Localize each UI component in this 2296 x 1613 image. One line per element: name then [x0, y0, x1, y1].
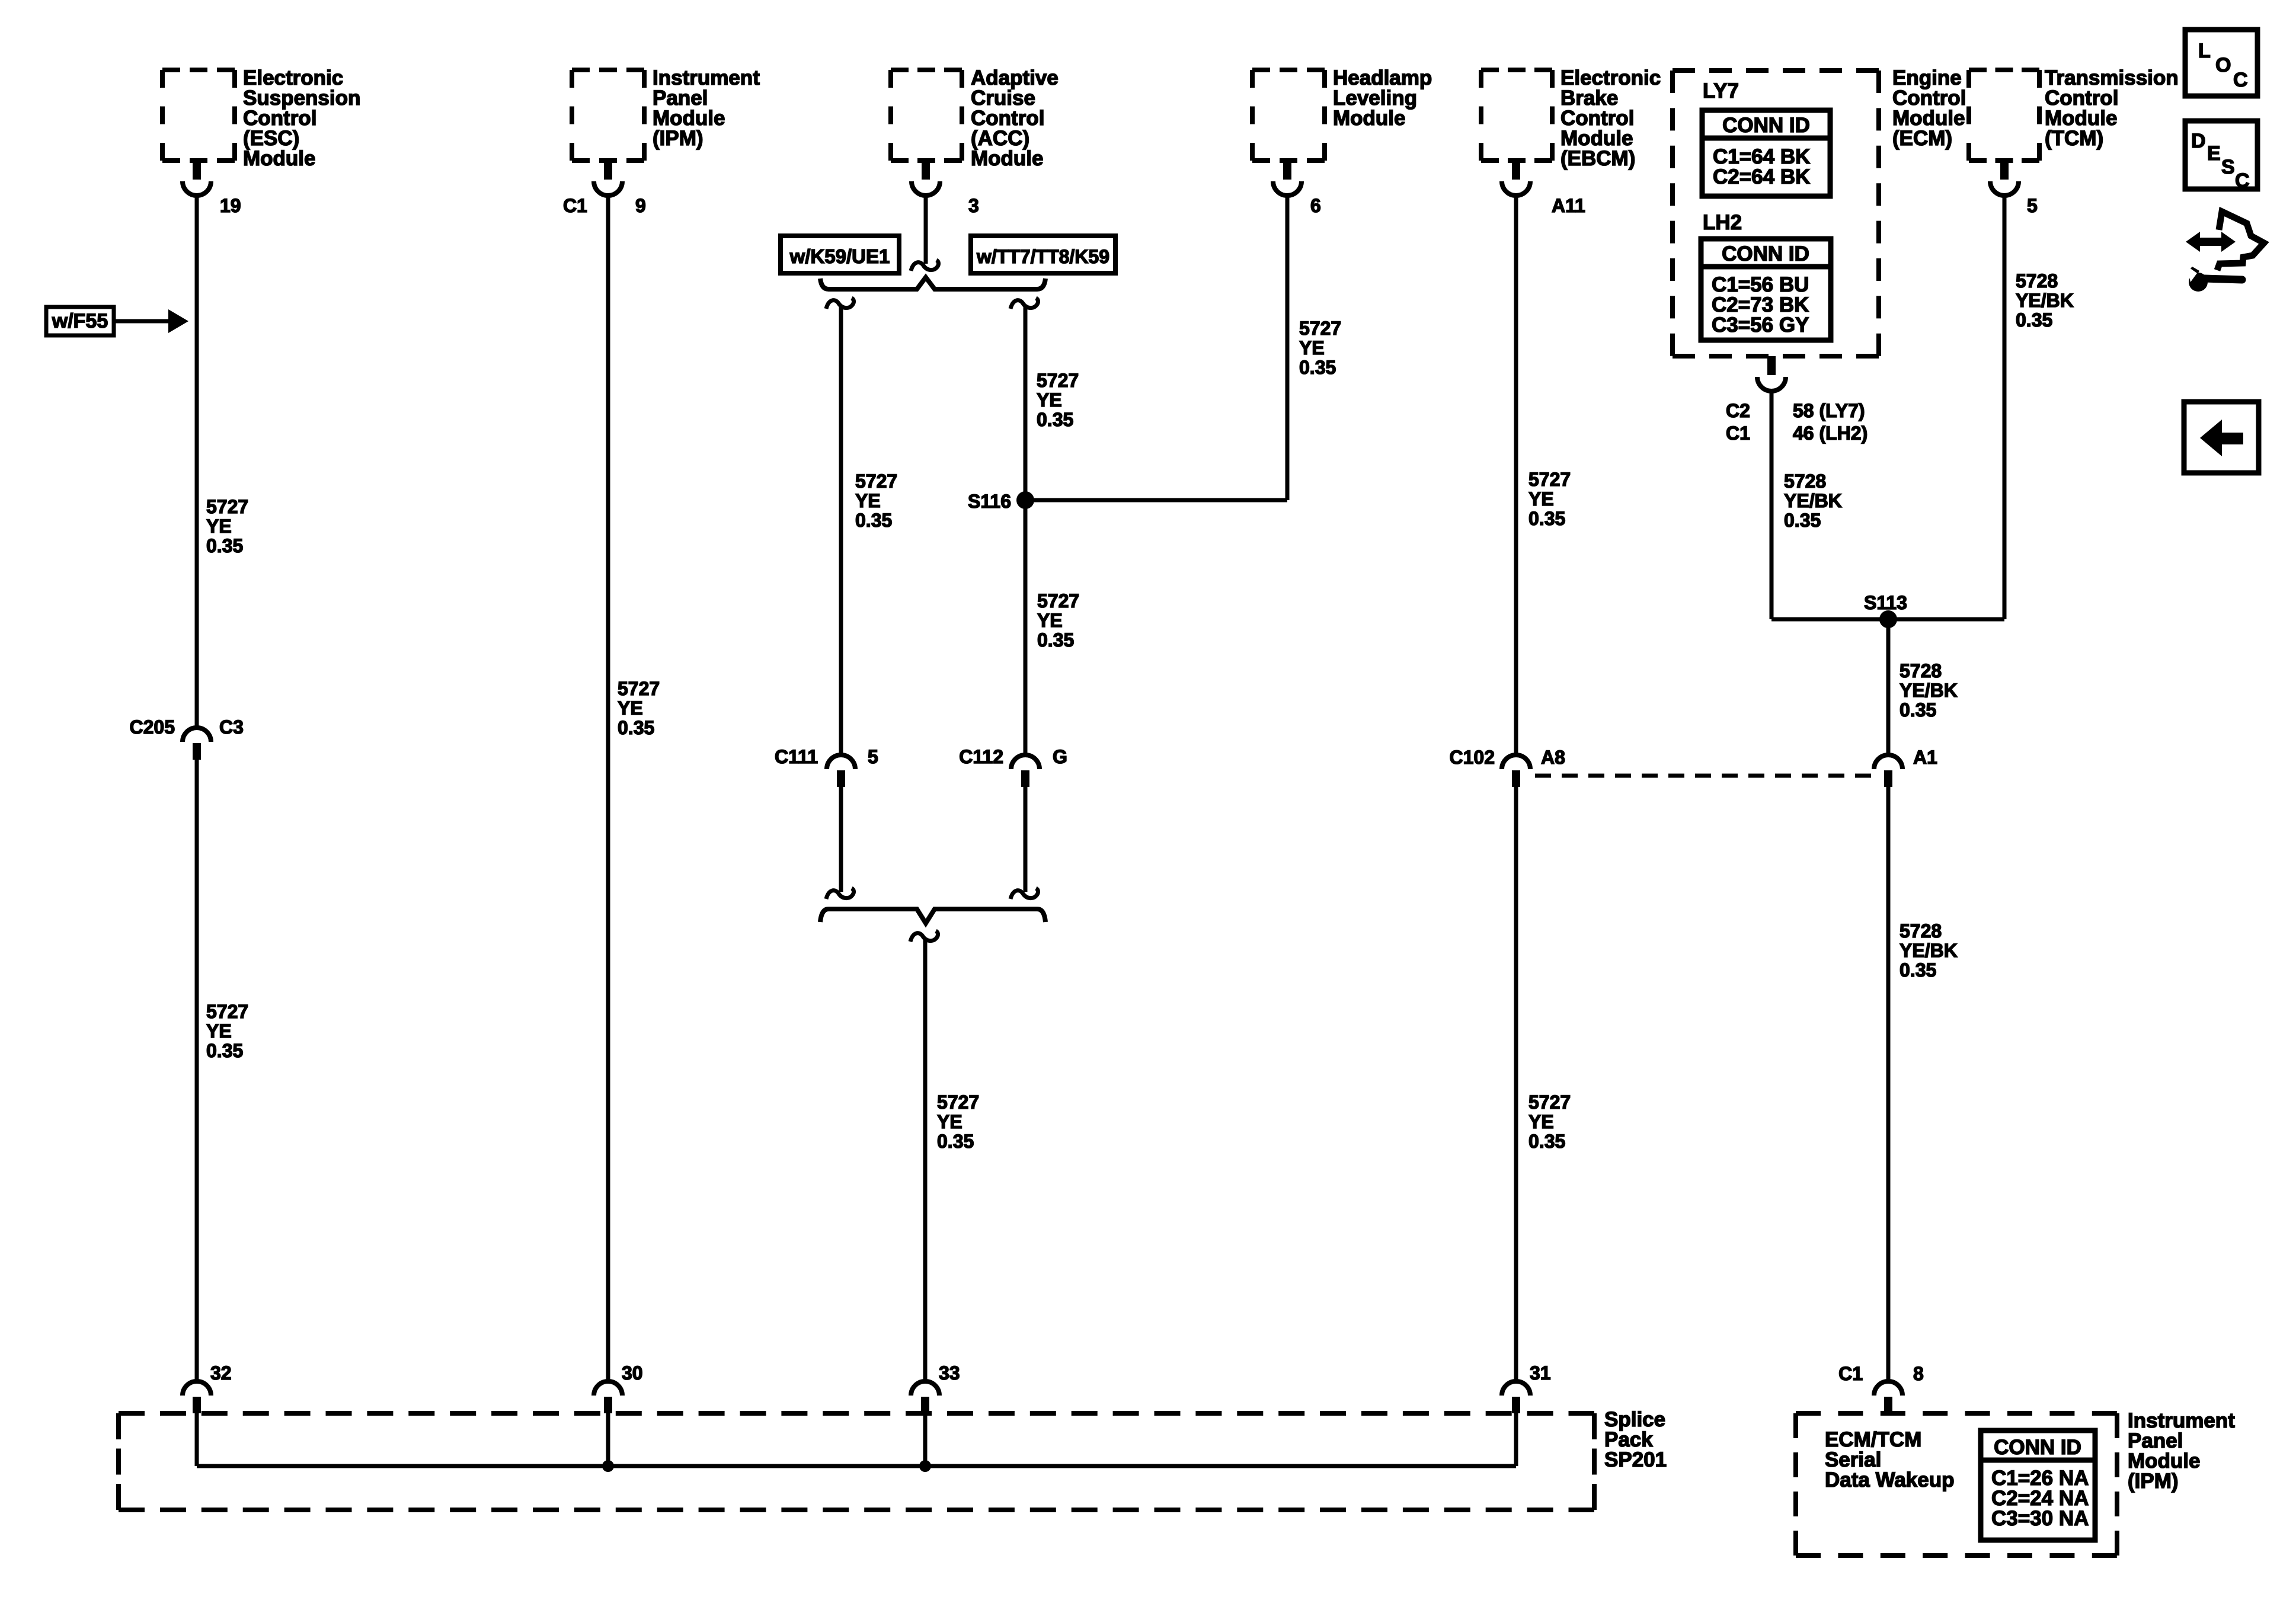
svg-text:C1: C1	[563, 195, 587, 216]
svg-text:C: C	[2235, 169, 2250, 192]
wire TCM pin 5 down to S113 level	[2003, 194, 2007, 619]
svg-text:G: G	[1053, 746, 1067, 767]
wire ECM pin down to S113 level	[1770, 390, 1774, 619]
connector C102	[1502, 755, 1530, 769]
splice pin 30 inner wire	[606, 1413, 610, 1466]
wire right branch down to C112	[1024, 306, 1028, 755]
back arrow icon box	[2184, 402, 2259, 473]
svg-text:C1: C1	[1726, 423, 1750, 444]
svg-text:5727: 5727	[937, 1092, 979, 1113]
svg-text:0.35: 0.35	[1037, 629, 1074, 651]
svg-text:5727: 5727	[1299, 318, 1341, 339]
svg-text:5728: 5728	[1784, 471, 1826, 492]
svg-text:C205: C205	[130, 716, 175, 738]
svg-text:0.35: 0.35	[206, 1040, 243, 1061]
svg-text:0.35: 0.35	[1900, 699, 1936, 721]
svg-text:5728: 5728	[2016, 270, 2058, 292]
svg-text:D: D	[2191, 130, 2206, 152]
svg-text:3: 3	[968, 195, 979, 216]
wire C205 down to splice 32	[195, 760, 199, 1382]
splice pin 32 inner wire	[195, 1413, 199, 1466]
svg-text:58 (LY7): 58 (LY7)	[1793, 400, 1865, 421]
wrench icon	[2204, 279, 2242, 280]
svg-text:YE: YE	[206, 516, 232, 537]
svg-text:8: 8	[1913, 1363, 1924, 1384]
connector A1	[1874, 755, 1902, 769]
svg-text:C102: C102	[1450, 747, 1495, 768]
svg-text:CONN ID: CONN ID	[1994, 1436, 2081, 1459]
svg-text:C3=56 GY: C3=56 GY	[1712, 313, 1809, 337]
LY7 CONN ID table	[1702, 110, 1830, 196]
svg-text:C1: C1	[1838, 1363, 1863, 1384]
svg-text:5: 5	[2027, 195, 2038, 216]
splice bus junction dot 33	[919, 1460, 931, 1472]
module ESC pin connector	[193, 161, 201, 180]
svg-text:YE/BK: YE/BK	[2016, 290, 2074, 311]
LOC icon box	[2185, 30, 2257, 96]
splice pin 30 connector	[594, 1381, 622, 1396]
svg-text:5727: 5727	[1528, 469, 1571, 490]
svg-text:C2: C2	[1726, 400, 1750, 421]
connector C205/C3	[183, 728, 211, 742]
svg-text:C3: C3	[219, 716, 244, 738]
svg-text:YE: YE	[855, 490, 881, 511]
svg-text:YE: YE	[1037, 610, 1063, 631]
variant box w/K59/UE1	[781, 236, 899, 273]
splice pin 32 connector	[183, 1381, 211, 1396]
svg-text:O: O	[2215, 54, 2231, 76]
w/F55 box	[46, 307, 114, 335]
wire left branch down to C111	[839, 306, 843, 755]
svg-text:32: 32	[210, 1362, 232, 1384]
svg-text:0.35: 0.35	[1900, 959, 1936, 981]
module IPM box	[572, 68, 644, 72]
svg-text:Data Wakeup: Data Wakeup	[1825, 1468, 1954, 1492]
svg-text:E: E	[2207, 142, 2221, 165]
splice pin 31 connector	[1502, 1381, 1530, 1396]
svg-text:YE: YE	[937, 1111, 962, 1132]
svg-text:YE: YE	[1037, 389, 1062, 411]
svg-text:(TCM): (TCM)	[2045, 127, 2103, 150]
svg-text:w/F55: w/F55	[52, 310, 108, 332]
svg-text:YE: YE	[1528, 1111, 1554, 1132]
module EBCM pin connector	[1512, 161, 1520, 180]
svg-text:CONN ID: CONN ID	[1722, 114, 1810, 137]
svg-text:CONN ID: CONN ID	[1722, 242, 1809, 265]
wire ESC pin 19 down to C205	[195, 194, 199, 728]
svg-text:9: 9	[635, 195, 646, 216]
svg-text:0.35: 0.35	[1299, 357, 1336, 378]
svg-text:w/K59/UE1: w/K59/UE1	[789, 245, 890, 267]
svg-text:0.35: 0.35	[2016, 309, 2052, 331]
LH2 CONN ID table	[1701, 239, 1831, 340]
break symbol below C111	[826, 888, 854, 899]
svg-text:Module: Module	[971, 147, 1043, 170]
svg-text:Module: Module	[243, 147, 315, 170]
bottom CONN ID table	[1981, 1430, 2095, 1540]
svg-text:C: C	[2233, 69, 2248, 91]
svg-text:A11: A11	[1552, 195, 1585, 216]
ECM pin connector	[1767, 356, 1776, 375]
connector C111	[827, 755, 855, 769]
module ACC pin connector	[922, 161, 930, 180]
wire S113 horizontal	[1771, 617, 2004, 622]
svg-text:YE: YE	[618, 697, 643, 719]
module HLM pin connector	[1283, 161, 1291, 180]
svg-text:S113: S113	[1864, 592, 1907, 613]
connector C112	[1011, 755, 1040, 769]
svg-text:5727: 5727	[1037, 370, 1079, 391]
wire below A1 down to IPM C1-8	[1886, 787, 1891, 1382]
svg-text:C112: C112	[959, 746, 1003, 767]
splice pin 31 inner wire	[1514, 1413, 1518, 1466]
svg-text:46 (LH2): 46 (LH2)	[1793, 423, 1868, 444]
DESC icon box	[2185, 121, 2257, 189]
splice bus junction dot 30	[602, 1460, 614, 1472]
svg-text:33: 33	[939, 1362, 960, 1384]
svg-text:0.35: 0.35	[937, 1131, 974, 1152]
break symbol below C112	[1011, 888, 1038, 899]
svg-text:5: 5	[868, 746, 878, 767]
svg-text:5728: 5728	[1900, 920, 1942, 942]
module ACC box	[891, 68, 962, 72]
svg-text:5727: 5727	[1528, 1092, 1571, 1113]
break symbol merged wire top	[910, 931, 938, 942]
brace merging to one wire	[820, 909, 1045, 923]
svg-text:19: 19	[220, 195, 241, 216]
bottom IPM pin C1-8 connector	[1874, 1381, 1902, 1396]
svg-text:0.35: 0.35	[1784, 510, 1821, 531]
wire below C112	[1024, 787, 1028, 892]
svg-text:A8: A8	[1541, 747, 1565, 768]
wire IPM pin 9 down to splice 30	[606, 194, 610, 1382]
module ESC box	[162, 68, 235, 72]
splice S116 dot	[1016, 491, 1034, 509]
svg-text:C3=30 NA: C3=30 NA	[1991, 1507, 2089, 1530]
svg-text:0.35: 0.35	[1528, 1131, 1565, 1152]
splice bus wire	[197, 1464, 1516, 1468]
module EBCM box	[1481, 68, 1552, 72]
wire ACC pin 3 down	[924, 194, 928, 264]
svg-text:A1: A1	[1913, 747, 1937, 768]
wire below C102 down to splice 31	[1514, 787, 1518, 1382]
wire HLM pin 6 down to S116 level	[1285, 194, 1290, 500]
svg-text:30: 30	[622, 1362, 643, 1384]
svg-text:0.35: 0.35	[618, 717, 654, 738]
module HLM box	[1252, 68, 1325, 72]
svg-text:YE: YE	[1299, 337, 1325, 359]
back arrow icon	[2200, 420, 2243, 456]
module TCM pin connector	[2000, 161, 2009, 180]
double arrow icon	[2186, 232, 2236, 252]
svg-text:0.35: 0.35	[1528, 508, 1565, 529]
splice pack SP201 box	[119, 1411, 1594, 1416]
svg-text:31: 31	[1530, 1362, 1551, 1384]
svg-text:5727: 5727	[855, 471, 897, 492]
connector-release zigzag icon	[2217, 212, 2264, 270]
svg-text:S: S	[2221, 156, 2235, 178]
svg-text:0.35: 0.35	[206, 535, 243, 556]
svg-text:LY7: LY7	[1703, 79, 1739, 103]
svg-text:6: 6	[1310, 195, 1321, 216]
module IPM pin connector	[604, 161, 612, 180]
variant box w/TT7/TT8/K59	[971, 236, 1115, 273]
splice pin 33 connector	[911, 1381, 939, 1396]
w/F55 arrow	[114, 319, 171, 324]
svg-text:YE/BK: YE/BK	[1900, 940, 1958, 961]
wire below C111	[839, 787, 843, 892]
svg-text:YE: YE	[206, 1020, 232, 1042]
splice S113 dot	[1879, 610, 1897, 628]
svg-text:C2=64 BK: C2=64 BK	[1713, 165, 1810, 188]
svg-text:Module: Module	[1333, 107, 1405, 130]
svg-text:5727: 5727	[618, 678, 660, 699]
brace splitting ACC wire	[820, 277, 1045, 289]
break symbol at ACC wire end	[911, 260, 939, 271]
svg-text:SP201: SP201	[1604, 1448, 1667, 1471]
svg-text:YE/BK: YE/BK	[1784, 490, 1842, 511]
svg-text:0.35: 0.35	[1037, 409, 1073, 430]
svg-text:YE: YE	[1528, 488, 1554, 510]
svg-text:C111: C111	[775, 746, 818, 767]
break symbol left branch top	[826, 298, 854, 309]
svg-text:5728: 5728	[1900, 660, 1942, 681]
svg-text:5727: 5727	[206, 1001, 248, 1022]
wire merged down to splice 33	[923, 939, 928, 1382]
svg-text:w/TT7/TT8/K59: w/TT7/TT8/K59	[976, 246, 1109, 267]
break symbol right branch top	[1011, 298, 1038, 309]
bottom IPM box	[1796, 1411, 2117, 1416]
dashed link C102 to A1	[1535, 774, 1872, 778]
module TCM box	[1969, 68, 2039, 72]
svg-text:0.35: 0.35	[855, 510, 892, 531]
svg-text:5727: 5727	[206, 496, 248, 517]
wire S113 down to A1	[1886, 619, 1891, 755]
svg-text:LH2: LH2	[1703, 211, 1742, 234]
svg-text:5727: 5727	[1037, 590, 1079, 612]
svg-text:S116: S116	[968, 491, 1011, 512]
svg-text:YE/BK: YE/BK	[1900, 680, 1958, 701]
splice pin 33 inner wire	[923, 1413, 928, 1466]
svg-text:(EBCM): (EBCM)	[1560, 147, 1635, 170]
svg-text:(IPM): (IPM)	[2128, 1470, 2179, 1493]
svg-text:(IPM): (IPM)	[653, 127, 703, 150]
module ECM box	[1673, 68, 1879, 73]
svg-text:(ECM): (ECM)	[1892, 127, 1952, 150]
wire S116 to HLM horizontal	[1025, 498, 1287, 503]
svg-text:L: L	[2198, 40, 2211, 62]
wire EBCM pin A11 down to C102	[1514, 194, 1518, 755]
